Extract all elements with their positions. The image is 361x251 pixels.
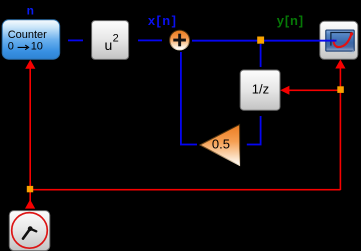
junction J3 orange on y[n] wire [257,37,264,44]
block Counter [2,20,60,59]
svg-text:1/z: 1/z [252,82,269,97]
wire red: right vertical corner up to junction J2 [340,92,342,190]
svg-text:0.5: 0.5 [212,137,230,152]
block Scope [320,21,358,59]
block Square u2 [92,21,129,60]
wire red: bottom horizontal from J1 to right corner [30,189,341,191]
wire blue: corner left to Gain input [247,144,262,146]
block Clock [9,211,50,251]
junction J1 orange bottom left [27,186,33,192]
wire red: junction J2 left to Unit Delay input [289,90,338,92]
arrowhead red up mid-wire above clock [25,200,35,209]
wire blue: Sum to Scope screen [192,40,337,42]
block Gain 0.5 [200,124,240,165]
svg-text:10: 10 [31,41,43,53]
svg-text:n: n [27,3,34,17]
block Unit Delay 1/z [240,70,280,110]
wire red: junction J2 up toward Scope [340,68,342,87]
svg-text:y[n]: y[n] [277,13,304,28]
svg-text:Counter: Counter [8,29,47,41]
wire red: clock to junction J1 [29,192,31,201]
svg-text:u: u [105,37,113,53]
arrowhead red into Counter bottom [25,60,35,69]
arrowhead red into Scope bottom [335,59,345,68]
wire blue: feedback up into Sum bottom [180,52,182,145]
svg-text:2: 2 [113,33,119,45]
wire blue: Counter to Square [68,40,83,42]
wire blue: junction J3 down to Unit Delay top [260,44,262,67]
block Sum [170,30,190,50]
wire blue: Square to Sum [138,40,162,42]
wire blue: Gain output horizontal to feedback corner [180,144,197,146]
wire red: junction J1 up to Counter trigger [29,68,31,186]
wire blue: Unit Delay bottom down [260,116,262,145]
svg-text:0: 0 [8,41,14,53]
svg-text:x[n]: x[n] [148,13,177,28]
arrowhead red into Unit Delay right side [280,86,289,95]
junction J2 orange right [337,86,344,93]
